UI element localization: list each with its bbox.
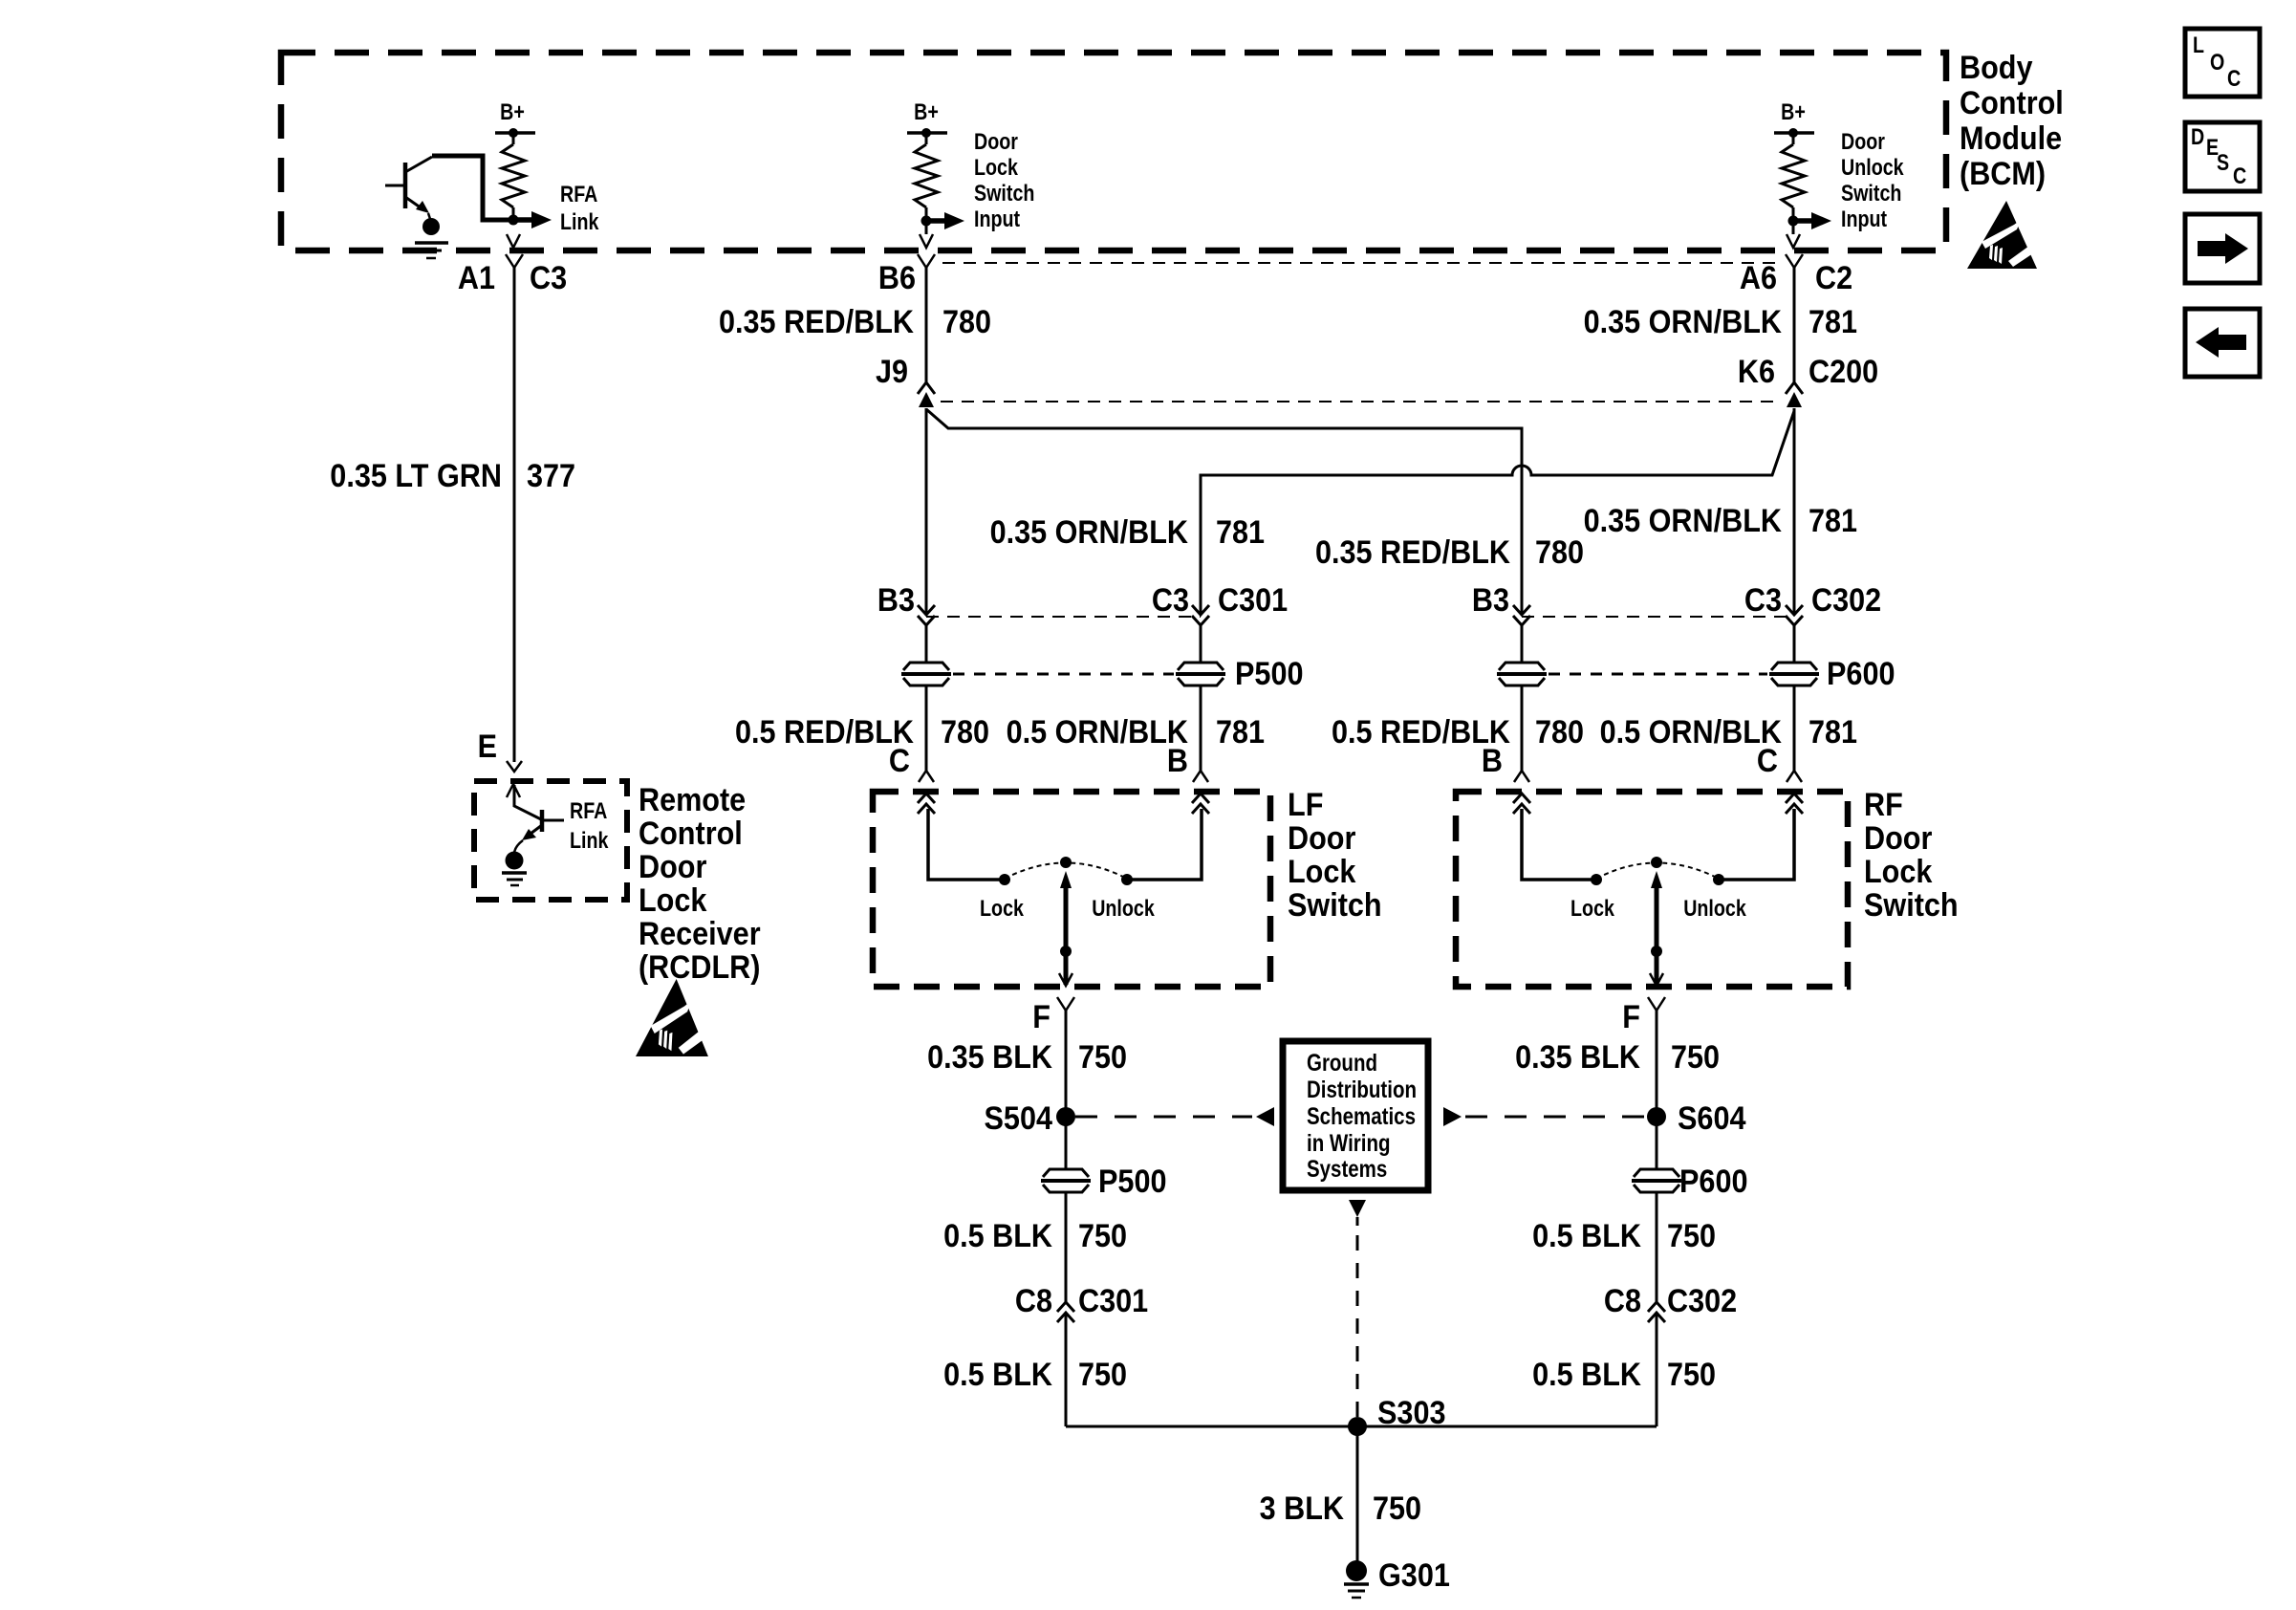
svg-text:B: B — [1482, 743, 1503, 779]
switch wiper dashed arc (RF) — [1596, 863, 1719, 880]
RCDLR label — [639, 782, 761, 986]
wire 781 ORN/BLK (col5 upper) — [1793, 268, 1796, 382]
svg-text:C3: C3 — [530, 260, 567, 296]
svg-text:781: 781 — [1809, 304, 1857, 340]
svg-text:0.5 BLK: 0.5 BLK — [943, 1357, 1052, 1393]
arrow into C302 col5 — [1786, 605, 1803, 625]
B+ supply col2 — [907, 99, 947, 144]
svg-text:781: 781 — [1809, 714, 1857, 751]
svg-text:Door: Door — [1288, 820, 1355, 857]
svg-text:780: 780 — [1535, 714, 1584, 751]
svg-text:Body: Body — [1960, 50, 2033, 86]
svg-text:F: F — [1622, 999, 1640, 1035]
wire-end Y col2 — [919, 771, 934, 782]
svg-text:RFA: RFA — [570, 798, 607, 824]
connector Y col2 (BCM pin B6) — [918, 254, 935, 268]
wiper arrow (LF) — [1060, 871, 1072, 888]
svg-text:781: 781 — [1216, 514, 1265, 551]
svg-text:C301: C301 — [1078, 1283, 1148, 1319]
svg-text:E: E — [478, 729, 497, 765]
svg-text:C3: C3 — [1152, 582, 1189, 619]
svg-text:C: C — [2227, 66, 2241, 92]
svg-text:0.35 ORN/BLK: 0.35 ORN/BLK — [1584, 503, 1783, 539]
dashed reference down to S303 — [1349, 1200, 1366, 1217]
svg-text:Receiver: Receiver — [639, 916, 761, 952]
svg-text:Remote: Remote — [639, 782, 746, 818]
svg-text:LF: LF — [1288, 787, 1323, 823]
svg-text:G301: G301 — [1378, 1557, 1450, 1594]
wire 3 BLK 750 to ground — [1356, 1426, 1359, 1562]
svg-text:A6: A6 — [1740, 260, 1777, 296]
svg-text:B6: B6 — [878, 260, 916, 296]
svg-text:Module: Module — [1960, 120, 2062, 157]
svg-text:P600: P600 — [1827, 656, 1895, 692]
ESD sensitivity symbol (BCM) — [1967, 201, 2042, 269]
svg-text:RFA: RFA — [560, 182, 597, 207]
svg-text:Control: Control — [639, 816, 743, 852]
grommet P500-c (LF ground wire) — [1041, 1169, 1091, 1192]
svg-text:S604: S604 — [1678, 1100, 1746, 1137]
arrow into RF box pin B — [1513, 794, 1530, 814]
svg-text:Switch: Switch — [1841, 181, 1901, 207]
svg-text:Door: Door — [1841, 129, 1885, 155]
dashed reference ground-distribution box to S604 — [1443, 1107, 1462, 1126]
wire 377 LT GRN (col1) — [513, 268, 516, 762]
svg-text:Lock: Lock — [1288, 854, 1355, 890]
svg-text:Lock: Lock — [1864, 854, 1932, 890]
B+ supply col5 — [1774, 99, 1814, 144]
Ground Distribution reference box — [1283, 1041, 1428, 1190]
svg-text:S: S — [2217, 150, 2229, 176]
svg-text:3 BLK: 3 BLK — [1260, 1490, 1345, 1527]
svg-text:C: C — [1757, 743, 1778, 779]
svg-text:750: 750 — [1078, 1039, 1127, 1076]
wire-end Y below LF box (pin F) — [1057, 997, 1074, 1011]
wire 750 BLK (LF, below P500) — [1065, 1192, 1068, 1302]
node RFA Link junction — [509, 215, 519, 226]
grommet P500-b (col3) — [1176, 663, 1225, 685]
svg-text:0.5 ORN/BLK: 0.5 ORN/BLK — [1600, 714, 1783, 751]
svg-text:B+: B+ — [500, 99, 525, 125]
svg-text:C302: C302 — [1811, 582, 1881, 619]
BCM label — [1960, 50, 2064, 192]
wire-end Y col3 — [1193, 771, 1208, 782]
arrow into BCM edge col1 — [507, 234, 520, 248]
wire 750 BLK (RF, below P600) — [1656, 1192, 1658, 1302]
svg-text:Link: Link — [570, 828, 609, 854]
dashed reference S504 to ground-distribution box — [1075, 1116, 1252, 1119]
svg-text:P500: P500 — [1235, 656, 1304, 692]
ground G301 — [1344, 1560, 1369, 1598]
svg-text:C: C — [889, 743, 910, 779]
svg-text:B: B — [1167, 743, 1188, 779]
wire branch 780 RED/BLK to RF (jog from J9 to col4) — [926, 409, 1522, 614]
svg-text:Unlock: Unlock — [1841, 155, 1904, 181]
LF switch label — [1288, 787, 1382, 924]
node door unlock switch input — [1788, 216, 1799, 227]
svg-text:Ground: Ground — [1307, 1050, 1377, 1077]
resistor col5 (door unlock switch input pull-up) — [1782, 144, 1805, 207]
svg-text:F: F — [1032, 999, 1051, 1035]
wire RF unlock contact — [1723, 809, 1794, 880]
arrow into C200 at J9 — [918, 382, 935, 407]
svg-text:Link: Link — [560, 209, 599, 235]
arrow into C301 col2 — [918, 605, 935, 625]
svg-text:P600: P600 — [1679, 1164, 1748, 1200]
svg-text:K6: K6 — [1738, 354, 1775, 390]
wire 750 BLK from RF switch — [1656, 1011, 1658, 1169]
svg-text:in Wiring: in Wiring — [1307, 1130, 1391, 1157]
svg-text:Unlock: Unlock — [1092, 896, 1155, 922]
svg-text:781: 781 — [1809, 503, 1857, 539]
svg-text:L: L — [2193, 33, 2204, 58]
transistor Q (RCDLR RFA link) — [514, 785, 564, 853]
wire-end Y col4 — [1514, 771, 1529, 782]
RF Door Lock Switch box (dashed) — [1456, 792, 1848, 987]
svg-text:C8: C8 — [1604, 1283, 1641, 1319]
svg-text:S504: S504 — [985, 1100, 1053, 1137]
svg-text:377: 377 — [527, 458, 575, 494]
svg-text:750: 750 — [1667, 1218, 1716, 1254]
svg-text:780: 780 — [941, 714, 989, 751]
B+ supply col1 — [495, 99, 535, 144]
svg-text:C301: C301 — [1218, 582, 1288, 619]
svg-text:Switch: Switch — [1864, 887, 1959, 924]
connector Y at RCDLR pin E — [507, 761, 522, 772]
svg-text:Switch: Switch — [974, 181, 1034, 207]
wire 780 RED/BLK (col2 upper) — [925, 268, 928, 382]
wire-end Y col5 — [1787, 771, 1802, 782]
splice S504 — [1056, 1107, 1075, 1126]
wire 781 col5 lower — [1793, 685, 1796, 771]
contact dot unlock (LF) — [1121, 874, 1133, 885]
wire LF unlock contact — [1132, 809, 1202, 880]
switch pivot dot (LF) — [1060, 857, 1072, 868]
Door Unlock Switch Input arrow — [1793, 129, 1904, 232]
svg-text:J9: J9 — [876, 354, 908, 390]
arrow through C302 (RF ground) — [1648, 1302, 1665, 1322]
grommet P600-a (col4) — [1497, 663, 1547, 685]
BCM connector in-line dashed link — [942, 262, 1778, 264]
svg-text:780: 780 — [942, 304, 991, 340]
arrow into C200 at K6 — [1786, 382, 1803, 407]
svg-text:(BCM): (BCM) — [1960, 156, 2046, 192]
BCM module box (dashed) — [281, 53, 1946, 250]
svg-text:B+: B+ — [1781, 99, 1806, 125]
wire 780 col2 lower — [925, 685, 928, 771]
svg-text:0.5 RED/BLK: 0.5 RED/BLK — [735, 714, 914, 751]
ESD sensitivity symbol (RCDLR) — [636, 979, 713, 1056]
svg-text:O: O — [2210, 50, 2224, 76]
wire branch 781 ORN/BLK to LF (jog from K6 to col3, hop over 780) — [1201, 411, 1794, 614]
contact dot lock (LF) — [999, 874, 1010, 885]
node on common wire (RF) — [1651, 946, 1662, 957]
transistor Q (RFA link driver) — [385, 156, 510, 222]
forward arrow nav box — [2185, 214, 2260, 283]
switch pivot dot (RF) — [1651, 857, 1662, 868]
svg-text:B3: B3 — [1472, 582, 1509, 619]
svg-text:0.5 ORN/BLK: 0.5 ORN/BLK — [1007, 714, 1189, 751]
svg-text:750: 750 — [1078, 1357, 1127, 1393]
wire 780 col4 lower — [1521, 685, 1524, 771]
wire 750 BLK from LF switch — [1065, 1011, 1068, 1169]
RFA Link output arrow — [513, 182, 599, 235]
grommet pair dashed link P600 — [1549, 673, 1767, 676]
svg-text:C200: C200 — [1809, 354, 1878, 390]
connector Y col5 (BCM C2 pin A6) — [1786, 254, 1803, 268]
svg-text:Switch: Switch — [1288, 887, 1382, 924]
grommet P600-c (RF ground wire) — [1632, 1169, 1681, 1192]
arrow into RCDLR pin E — [507, 784, 520, 797]
svg-text:750: 750 — [1078, 1218, 1127, 1254]
arrow to RF box edge — [1650, 973, 1663, 986]
svg-text:C: C — [2233, 163, 2246, 189]
arrow into BCM edge col2 — [920, 234, 933, 248]
svg-text:781: 781 — [1216, 714, 1265, 751]
wire-end Y below RF box (pin F) — [1648, 997, 1665, 1011]
arrow into LF box pin C — [918, 794, 935, 814]
svg-text:B3: B3 — [877, 582, 915, 619]
svg-text:A1: A1 — [458, 260, 495, 296]
svg-text:Systems: Systems — [1307, 1156, 1387, 1183]
svg-text:Door: Door — [639, 849, 706, 885]
svg-text:C8: C8 — [1015, 1283, 1052, 1319]
wire 781 col3 lower — [1200, 685, 1202, 771]
arrow into LF box pin B — [1192, 794, 1209, 814]
svg-text:Lock: Lock — [1570, 896, 1614, 922]
contact dot lock (RF) — [1591, 874, 1602, 885]
svg-text:Door: Door — [1864, 820, 1932, 857]
ground (RCDLR internal) — [502, 852, 527, 886]
back arrow nav box — [2185, 309, 2260, 377]
svg-text:0.35 ORN/BLK: 0.35 ORN/BLK — [1584, 304, 1783, 340]
ground (BCM internal) — [415, 218, 448, 258]
arrow through C301 (LF ground) — [1057, 1302, 1074, 1322]
svg-text:0.35 BLK: 0.35 BLK — [927, 1039, 1052, 1076]
RF switch label — [1864, 787, 1959, 924]
connector Y col1 (BCM C3 pin A1) — [506, 254, 523, 268]
resistor col2 (door lock switch input pull-up) — [915, 144, 938, 207]
svg-text:B+: B+ — [914, 99, 939, 125]
wire LF lock contact — [928, 809, 1000, 880]
RFA Link label (RCDLR) — [570, 798, 609, 854]
svg-text:Lock: Lock — [639, 882, 706, 919]
arrow into RF box pin C — [1786, 794, 1803, 814]
svg-text:750: 750 — [1671, 1039, 1720, 1076]
svg-text:0.35 BLK: 0.35 BLK — [1515, 1039, 1640, 1076]
DESC nav box — [2185, 122, 2260, 191]
svg-text:C2: C2 — [1815, 260, 1852, 296]
svg-text:Distribution: Distribution — [1307, 1077, 1417, 1103]
svg-text:750: 750 — [1667, 1357, 1716, 1393]
grommet P500-a (col2) — [901, 663, 951, 685]
RCDLR box (dashed) — [474, 781, 627, 900]
wire RF lock contact — [1522, 809, 1592, 880]
svg-text:0.5 BLK: 0.5 BLK — [1532, 1218, 1641, 1254]
svg-text:750: 750 — [1373, 1490, 1421, 1527]
svg-text:S303: S303 — [1377, 1395, 1446, 1431]
LF Door Lock Switch box (dashed) — [873, 792, 1270, 987]
svg-text:Unlock: Unlock — [1683, 896, 1746, 922]
grommet P600-b (col5) — [1769, 663, 1819, 685]
svg-text:C3: C3 — [1744, 582, 1782, 619]
svg-text:0.5 BLK: 0.5 BLK — [943, 1218, 1052, 1254]
connector C301 dashed line — [926, 616, 1201, 618]
svg-text:Schematics: Schematics — [1307, 1103, 1416, 1130]
node on common wire (LF) — [1060, 946, 1072, 957]
svg-text:Input: Input — [1841, 207, 1887, 232]
svg-text:0.35 LT GRN: 0.35 LT GRN — [330, 458, 502, 494]
splice S604 — [1647, 1107, 1666, 1126]
arrow into C301 col3 — [1192, 605, 1209, 625]
svg-text:0.35 RED/BLK: 0.35 RED/BLK — [719, 304, 914, 340]
LOC nav box — [2185, 29, 2260, 97]
wiper arrow (RF) — [1651, 871, 1662, 888]
svg-text:780: 780 — [1535, 534, 1584, 571]
arrow into C302 col4 — [1513, 605, 1530, 625]
node door lock switch input — [921, 216, 932, 227]
resistor col1 (RFA Link pull-up) — [502, 144, 525, 207]
arrow into BCM edge col5 — [1787, 234, 1800, 248]
svg-text:Lock: Lock — [980, 896, 1024, 922]
svg-text:(RCDLR): (RCDLR) — [639, 949, 760, 986]
switch common wire (RF) — [1655, 884, 1659, 985]
Door Lock Switch Input arrow — [926, 129, 1034, 232]
connector C302 dashed line — [1522, 616, 1794, 618]
svg-text:P500: P500 — [1098, 1164, 1167, 1200]
svg-text:Lock: Lock — [974, 155, 1018, 181]
arrow to LF box edge — [1059, 973, 1072, 986]
connector C200 dashed line — [941, 401, 1778, 402]
contact dot unlock (RF) — [1713, 874, 1724, 885]
ground bus wire to S303 — [1066, 1425, 1657, 1428]
splice S303 — [1348, 1417, 1367, 1436]
svg-text:0.35 RED/BLK: 0.35 RED/BLK — [1315, 534, 1510, 571]
svg-text:Input: Input — [974, 207, 1020, 232]
svg-text:Control: Control — [1960, 85, 2064, 121]
switch common wire (LF) — [1064, 884, 1069, 985]
svg-text:D: D — [2191, 124, 2204, 150]
svg-text:RF: RF — [1864, 787, 1903, 823]
grommet pair dashed link P500 — [953, 673, 1174, 676]
svg-text:0.5 BLK: 0.5 BLK — [1532, 1357, 1641, 1393]
switch wiper dashed arc (LF) — [1005, 863, 1127, 880]
svg-text:0.35 ORN/BLK: 0.35 ORN/BLK — [990, 514, 1189, 551]
svg-text:C302: C302 — [1667, 1283, 1737, 1319]
svg-text:Door: Door — [974, 129, 1018, 155]
